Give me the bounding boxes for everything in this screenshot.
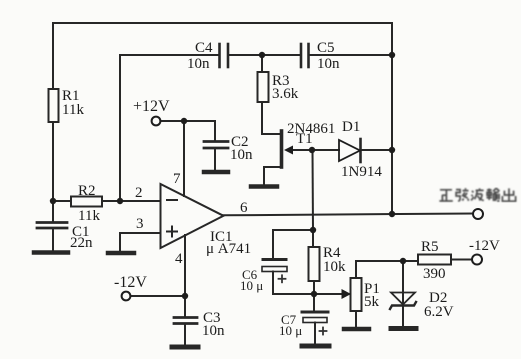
wire top outer rail (53, 22, 392, 24)
svg-text:6.2V: 6.2V (424, 304, 454, 320)
wire pin7 vertical (183, 121, 185, 196)
resistor R3 (258, 72, 269, 102)
svg-text:6: 6 (240, 200, 248, 216)
junction output/right rail (389, 211, 395, 217)
svg-text:10n: 10n (187, 56, 210, 72)
wire T1 source lead (264, 167, 280, 184)
junction pin2 node (117, 198, 123, 204)
capacitor C6 electrolytic bottom plate (262, 267, 287, 272)
ground under C7 (302, 344, 329, 349)
terminal -12V right (472, 255, 482, 265)
svg-text:D1: D1 (342, 119, 360, 135)
svg-text:+12V: +12V (133, 98, 170, 115)
wire C3 bottom to ground (184, 324, 186, 346)
wire R5 node down to D2 (402, 261, 404, 305)
wire +12V rail (160, 121, 215, 140)
wire R5 right to -12V terminal (451, 259, 472, 261)
ground under T1 source (251, 184, 277, 189)
polarity plus of C7 (320, 328, 327, 335)
wire right rail vertical (391, 23, 393, 214)
ground under C2 (204, 170, 228, 175)
svg-text:R5: R5 (421, 239, 439, 255)
svg-text:10n: 10n (317, 56, 340, 72)
ground under P1 (344, 327, 369, 332)
label sine wave output (Chinese) (439, 188, 515, 201)
terminal -12V left (122, 292, 131, 301)
svg-text:10 μ: 10 μ (240, 278, 263, 293)
svg-text:C4: C4 (195, 40, 213, 56)
wire R1 bottom to node A (52, 122, 54, 201)
wire pin2 input (120, 200, 160, 202)
svg-text:C5: C5 (317, 40, 335, 56)
capacitor C7 electrolytic top plate (302, 311, 328, 314)
wire R3 to T1 drain (262, 102, 280, 134)
svg-text:10n: 10n (230, 147, 253, 163)
wire left vertical from top rail to R1 (52, 23, 54, 89)
wire P1 bottom to ground (355, 311, 357, 327)
junction C5/right rail (389, 52, 395, 58)
wire C1 bottom to ground (52, 228, 54, 250)
wire gate node C down through output line to R4 node (312, 150, 315, 230)
char xian (456, 188, 469, 201)
junction +12V/pin7 (181, 118, 187, 124)
wire pin3 input with ground stub (120, 233, 160, 250)
svg-text:10k: 10k (323, 259, 346, 275)
char zheng (439, 190, 452, 201)
capacitor C7 electrolytic bottom plate (303, 318, 327, 323)
diode D1 triangle (339, 140, 360, 161)
zener diode D2 triangle (391, 293, 415, 305)
resistor R1 (49, 89, 59, 122)
svg-text:22n: 22n (70, 235, 93, 251)
ground under C3 (172, 345, 198, 350)
wire pin4 vertical to -12V node (184, 235, 186, 296)
wire C7 bottom to ground (314, 323, 316, 345)
wire C5 to right rail (309, 54, 393, 56)
junction node B C4/C5/R3 (259, 52, 265, 58)
junction P1/R5/D2 node (400, 258, 406, 264)
wire R2 right to pin2 node (102, 200, 120, 202)
svg-text:11k: 11k (62, 102, 84, 118)
char chu (502, 188, 515, 201)
op-amp minus sign (167, 199, 177, 201)
terminal output (473, 209, 483, 219)
wire inner rail left vertical down to pin2 node (119, 55, 121, 201)
junction -12V/pin4/C3 (182, 293, 188, 299)
capacitor C4 (220, 44, 229, 67)
capacitor C6 electrolytic top plate (263, 258, 286, 261)
svg-text:10 μ: 10 μ (279, 323, 302, 338)
svg-text:11k: 11k (78, 208, 100, 224)
svg-text:-12V: -12V (469, 238, 500, 254)
wire pin4 node down to C3 (184, 296, 186, 316)
char shu (487, 188, 500, 201)
capacitor C2 (204, 142, 228, 149)
terminal +12V (152, 117, 161, 126)
capacitor C5 (301, 44, 309, 67)
svg-text:3.6k: 3.6k (272, 86, 299, 102)
svg-text:-12V: -12V (114, 274, 147, 291)
junction wiper node (311, 291, 317, 297)
ground under C1 (34, 250, 68, 255)
junction gate node C (309, 147, 315, 153)
potentiometer P1 wiper arrow (342, 289, 352, 299)
wire C2 bottom to ground (214, 148, 216, 170)
op-amp plus sign (167, 227, 177, 237)
wire C6 bottom down and right to wiper node (273, 272, 314, 295)
resistor R2 (71, 197, 102, 207)
svg-text:10n: 10n (202, 323, 225, 339)
wire D2 to ground (402, 306, 404, 327)
wire inner top rail to C4 (120, 54, 220, 56)
junction D1/right rail (389, 147, 395, 153)
wire wiper node down to C7 (313, 294, 315, 311)
ground under D2 (391, 326, 416, 331)
wire output line (224, 214, 474, 216)
svg-text:R2: R2 (78, 183, 96, 199)
junction node A R1/R2/C1 (50, 198, 56, 204)
wire node B down to R3 (261, 55, 263, 72)
wire R4 node branch left to C6 (273, 230, 313, 258)
ground at pin3 (108, 251, 134, 256)
wire -12V terminal to pin4 node (130, 295, 185, 297)
wire R5 node to R5 (403, 260, 418, 262)
diode D1 cathode bar (359, 139, 362, 162)
transistor T1 gate arrow (284, 146, 293, 155)
wire R4 top (312, 230, 314, 247)
zener D2 cathode bar (390, 302, 416, 309)
junction R4 top node (310, 227, 316, 233)
char bo (471, 188, 484, 200)
polarity plus of C6 (279, 275, 286, 282)
wire node A to R2 (53, 200, 71, 202)
svg-text:4: 4 (175, 251, 183, 267)
wire wiper node to P1 arrow (314, 293, 341, 295)
wire T1 gate to node C (292, 149, 312, 151)
svg-text:2: 2 (135, 185, 143, 201)
svg-text:7: 7 (173, 171, 181, 187)
potentiometer P1 body (351, 278, 362, 311)
resistor R5 (418, 255, 451, 265)
wire R4 bottom to wiper node (313, 281, 315, 294)
svg-text:T1: T1 (296, 131, 313, 147)
transistor T1 2N4861 channel (280, 131, 284, 167)
svg-text:1N914: 1N914 (341, 164, 382, 180)
wire D1 cathode to right rail (361, 149, 392, 151)
capacitor C3 (174, 318, 197, 324)
svg-text:3: 3 (136, 216, 144, 232)
capacitor C1 (37, 223, 67, 229)
wire node C to D1 anode (312, 149, 339, 151)
wire node A down to C1 (52, 201, 54, 221)
resistor R4 (309, 247, 320, 281)
svg-text:μ A741: μ A741 (206, 241, 251, 257)
wire P1 top to R5 node (356, 261, 403, 278)
op-amp IC1 triangle (161, 184, 224, 248)
wire C4 to node B (228, 54, 301, 56)
svg-text:5k: 5k (364, 294, 380, 310)
svg-text:390: 390 (423, 266, 446, 282)
